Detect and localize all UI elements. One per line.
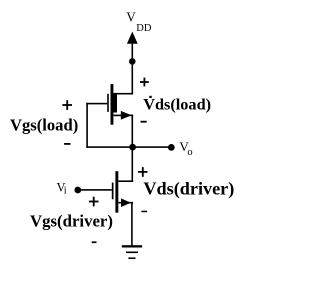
power net VDD label xyxy=(126,10,152,34)
node Vo terminal dot xyxy=(168,144,175,151)
svg-text:Vds(load): Vds(load) xyxy=(143,95,211,114)
svg-text:Vgs(driver): Vgs(driver) xyxy=(30,212,113,231)
transistor M-driver source arrow xyxy=(121,198,131,207)
node junction dot output xyxy=(129,144,136,151)
node Vi terminal dot xyxy=(74,187,81,194)
transistor M-load channel bar xyxy=(111,84,114,125)
transistor M-driver drain lead xyxy=(118,180,133,182)
node Vo label xyxy=(179,139,192,158)
wire driver gate lead xyxy=(78,189,112,191)
label Vds(load) with overdot xyxy=(143,95,211,114)
transistor M-load source arrow xyxy=(121,111,132,120)
transistor M-load drain lead xyxy=(113,93,133,95)
transistor M-load gate plate xyxy=(107,94,109,112)
svg-text:i: i xyxy=(64,186,67,197)
transistor M-driver gate plate xyxy=(112,183,114,200)
wire output to Vo terminal xyxy=(132,146,171,148)
minus sign Vgs(driver) xyxy=(92,241,97,243)
minus sign Vgs(load) xyxy=(64,143,70,145)
svg-text:Vgs(load): Vgs(load) xyxy=(10,115,78,134)
transistor M-load thick channel section xyxy=(111,94,118,112)
wire driver source down to ground xyxy=(131,202,133,246)
svg-text:Vds(driver): Vds(driver) xyxy=(143,179,234,200)
wire left gate-feedback vertical xyxy=(86,103,88,148)
minus sign Vds(driver) xyxy=(141,211,147,213)
wire VDD arrow down to load drain xyxy=(132,42,134,94)
plus sign Vgs(load) xyxy=(62,100,72,110)
power VDD arrow symbol xyxy=(127,32,138,44)
svg-text:o: o xyxy=(187,147,192,158)
node Vi label xyxy=(57,180,67,196)
node dot on VDD wire xyxy=(129,58,136,65)
transistor M-driver source lead xyxy=(118,202,133,204)
minus sign Vds(load) xyxy=(141,121,147,123)
transistor M-driver channel bar xyxy=(115,171,118,213)
wire load gate lead xyxy=(86,103,107,105)
plus sign Vds(load) xyxy=(140,78,149,87)
svg-text:V: V xyxy=(126,10,136,25)
ground symbol xyxy=(122,245,142,259)
wire left gate-feedback bottom horizontal xyxy=(86,146,132,148)
plus sign Vds(driver) xyxy=(138,167,147,177)
wire load source down through output junction to driver drain xyxy=(132,115,134,182)
plus sign Vgs(driver) xyxy=(89,197,99,207)
svg-text:DD: DD xyxy=(136,23,152,34)
transistor M-load source lead xyxy=(113,115,133,117)
